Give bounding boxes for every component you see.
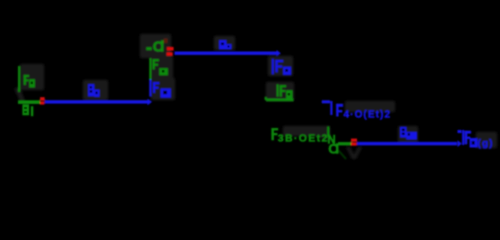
- svg-text:3B·OEt2: 3B·OEt2: [278, 133, 328, 145]
- svg-text:Cl: Cl: [328, 141, 339, 157]
- svg-text:Cl: Cl: [153, 38, 165, 55]
- svg-text:(g): (g): [478, 138, 493, 149]
